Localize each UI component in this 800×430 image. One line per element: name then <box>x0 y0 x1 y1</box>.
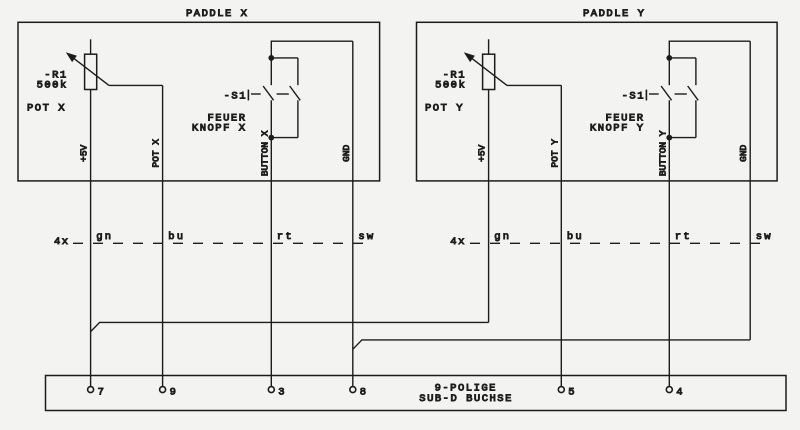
svg-text:4x: 4x <box>450 236 466 248</box>
svg-text:+5V: +5V <box>79 144 90 161</box>
connector pin 4 <box>666 386 684 398</box>
svg-text:KNOPF X: KNOPF X <box>192 123 247 135</box>
connector pin 9 <box>160 386 178 398</box>
svg-text:-S1: -S1 <box>224 90 247 102</box>
svg-text:GND: GND <box>341 144 352 161</box>
svg-text:POT X: POT X <box>27 103 66 115</box>
S1 actuator bar (paddle X) <box>247 90 249 101</box>
connector J1 9-pole SUB-D box <box>46 376 787 411</box>
wire: S1 top to GND rail (paddle Y) <box>669 41 750 58</box>
wire: S1 top to GND rail (paddle X) <box>271 41 353 58</box>
svg-text:BUTTON X: BUTTON X <box>259 130 270 176</box>
wiper arrow of R1 (paddle X) <box>66 52 109 85</box>
svg-text:PADDLE X: PADDLE X <box>186 8 248 20</box>
wire: BUTTON Y net down to pin 4 <box>668 138 670 387</box>
S1 mechanical link dashed line (paddle Y) <box>649 93 687 95</box>
junction node: S1 top (paddle X) <box>268 55 274 61</box>
svg-text:4x: 4x <box>54 236 70 248</box>
svg-text:5: 5 <box>568 386 576 398</box>
svg-text:SUB-D BUCHSE: SUB-D BUCHSE <box>419 393 513 405</box>
wiper arrow of R1 (paddle Y) <box>464 52 507 85</box>
svg-text:500k: 500k <box>435 80 466 92</box>
pushbutton S1 (paddle Y) pole 1 contacts <box>661 58 672 138</box>
svg-text:sw: sw <box>756 231 773 243</box>
svg-text:-S1: -S1 <box>622 90 645 102</box>
svg-text:7: 7 <box>98 386 106 398</box>
pushbutton S1 (paddle Y) pole 2 contacts <box>669 58 698 138</box>
svg-text:+5V: +5V <box>477 144 488 161</box>
connector name label 9-POLIGE SUB-D BUCHSE <box>419 382 513 405</box>
svg-text:4: 4 <box>676 386 684 398</box>
FEUER KNOPF Y label <box>590 113 645 135</box>
wire: +5V interconnect paddle Y to paddle X <box>91 322 489 331</box>
wire: POT Y net down to pin 5 <box>507 85 561 386</box>
S1 mechanical link dashed line (paddle X) <box>251 93 289 95</box>
connector pin 3 <box>268 386 286 398</box>
svg-text:bu: bu <box>168 231 185 243</box>
wire: POT X net down to pin 9 <box>109 85 163 386</box>
svg-text:POT Y: POT Y <box>425 103 464 115</box>
junction node: S1 top (paddle Y) <box>666 55 672 61</box>
svg-text:sw: sw <box>358 231 375 243</box>
svg-text:PADDLE Y: PADDLE Y <box>583 8 645 20</box>
svg-text:8: 8 <box>360 386 368 398</box>
svg-text:POT Y: POT Y <box>549 139 560 168</box>
wire: GND interconnect paddle Y to paddle X <box>353 340 750 349</box>
cable dashed line (right bundle) <box>470 242 770 244</box>
paddle Y enclosure box <box>417 22 778 181</box>
connector pin 5 <box>558 386 576 398</box>
wire: BUTTON X net down to pin 3 <box>270 138 272 387</box>
wire: +5V net paddle Y down to junction <box>488 90 490 323</box>
svg-text:gn: gn <box>96 231 113 243</box>
svg-text:gn: gn <box>494 231 511 243</box>
paddle X enclosure box <box>18 22 380 181</box>
svg-text:POT X: POT X <box>151 139 162 168</box>
wire: +5V net paddle X down to pin 7 <box>90 90 92 387</box>
pushbutton S1 (paddle X) pole 1 contacts <box>263 58 274 138</box>
S1 actuator bar (paddle Y) <box>645 90 647 101</box>
svg-text:GND: GND <box>738 144 749 161</box>
svg-text:KNOPF Y: KNOPF Y <box>590 123 645 135</box>
pushbutton S1 (paddle X) pole 2 contacts <box>271 58 300 138</box>
svg-text:500k: 500k <box>37 80 68 92</box>
svg-text:9: 9 <box>170 386 178 398</box>
wire: GND net paddle Y down to junction <box>749 41 751 340</box>
junction node: S1 bottom (paddle Y) <box>666 135 672 141</box>
svg-text:3: 3 <box>278 386 286 398</box>
FEUER KNOPF X label <box>192 113 247 135</box>
svg-text:bu: bu <box>567 231 584 243</box>
potentiometer R1 (paddle X) <box>85 39 97 89</box>
cable dashed line (left bundle) <box>73 242 372 244</box>
wire: GND net paddle X down to pin 8 <box>352 41 354 386</box>
connector pin 7 <box>88 386 106 398</box>
potentiometer R1 (paddle Y) <box>483 39 495 89</box>
connector pin 8 <box>350 386 368 398</box>
junction node: S1 bottom (paddle X) <box>268 135 274 141</box>
svg-text:rt: rt <box>277 231 294 243</box>
svg-text:BUTTON Y: BUTTON Y <box>657 130 668 176</box>
svg-text:rt: rt <box>675 231 692 243</box>
